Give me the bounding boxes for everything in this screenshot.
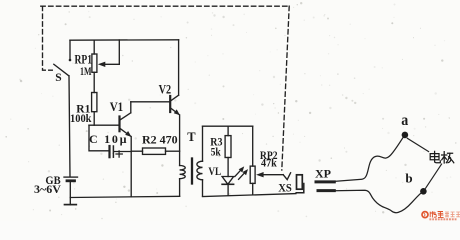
- wire: transformer primary bottom to ground rail: [179, 179, 181, 197]
- svg-text:XP: XP: [315, 167, 331, 181]
- wire: RP2 top stub: [252, 126, 254, 166]
- wire: RP2 bottom to secondary rail: [252, 183, 254, 194]
- svg-text:V1: V1: [110, 100, 124, 114]
- wire: R2 to V2 emitter: [166, 150, 180, 152]
- potentiometer RP1 top stub wire: [93, 40, 95, 54]
- wire: capacitor to V1 emitter node: [114, 151, 131, 153]
- watermark light glyph blobs: [445, 212, 460, 217]
- transformer T primary winding: [180, 166, 186, 179]
- plug XP bottom prong: [318, 189, 334, 192]
- character 电: [430, 151, 440, 162]
- transistor V1 base bar: [118, 117, 120, 132]
- capacitor C plus sign: [116, 151, 122, 157]
- socket XS body: [297, 175, 303, 189]
- mechanical link dashed line (right run down to RP2): [282, 6, 289, 170]
- svg-text:S: S: [55, 72, 61, 84]
- resistor R3 body: [225, 136, 231, 158]
- watermark bold glyph blobs: [430, 211, 444, 217]
- svg-text:XS: XS: [278, 180, 292, 194]
- resistor R1 body: [92, 93, 97, 112]
- wire: RP1 to R1: [93, 72, 95, 92]
- svg-text:T: T: [187, 130, 196, 144]
- LED VL cathode bar: [222, 183, 234, 185]
- wire: RP1 wiper return to top rail: [118, 40, 120, 64]
- switch S lever: [54, 64, 69, 76]
- wire: primary-side ground rail: [70, 196, 179, 197]
- wire: V1 emitter down to ground rail: [130, 137, 132, 197]
- wire: stub from top rail to switch fixed contact: [69, 40, 71, 59]
- mechanical link dashed line (left run down to S): [43, 6, 53, 70]
- label 电极 (drawn as vector strokes): [430, 151, 454, 163]
- RP2 wiper arrow: [260, 174, 283, 176]
- svg-text:47k: 47k: [261, 155, 277, 169]
- LED VL triangle: [222, 177, 234, 185]
- wire: battery negative down: [69, 182, 71, 205]
- wire: LED to secondary rail: [227, 184, 229, 195]
- RP1 wiper arrow: [102, 63, 120, 65]
- wire: secondary top up to load box top: [202, 126, 204, 161]
- battery GB plates: [64, 176, 78, 178]
- watermark logo circle: [422, 212, 428, 218]
- transformer T core: [191, 159, 193, 184]
- wire: top supply rail: [70, 39, 179, 41]
- wire: electrode lead b (curvy): [334, 190, 421, 212]
- character 极: [442, 152, 447, 163]
- svg-text:VL: VL: [208, 164, 221, 178]
- svg-text:b: b: [405, 171, 412, 186]
- transistor V1 collector: [120, 113, 131, 120]
- pointer line from electrode a to label: [407, 138, 428, 151]
- transistor V2 emitter with arrow: [171, 108, 179, 114]
- pointer line from electrode b to label: [426, 164, 442, 188]
- switch S fixed contact dot: [69, 59, 72, 62]
- wire: R3 top stub: [227, 126, 229, 135]
- wire: electrode lead a (curvy): [334, 137, 403, 182]
- potentiometer RP1 body: [92, 54, 97, 72]
- wire: V2 collector up to top rail: [178, 40, 180, 95]
- wire: V2 emitter down to transformer primary: [179, 115, 181, 166]
- battery lower plate bar: [65, 204, 77, 206]
- electrode terminal a dot: [402, 132, 409, 139]
- wire: switch to battery positive: [69, 76, 70, 177]
- transistor V1 emitter with arrow: [120, 129, 130, 137]
- mechanical link dashed line (top run): [41, 5, 289, 7]
- svg-text:V2: V2: [159, 83, 172, 97]
- svg-text:a: a: [401, 112, 408, 129]
- wire: secondary-side ground rail: [203, 194, 296, 197]
- wire: V1 collector to V2 base: [131, 101, 170, 103]
- capacitor C plates: [108, 146, 110, 157]
- svg-text:1M: 1M: [80, 64, 92, 78]
- LED VL light arrow 1: [235, 169, 242, 176]
- transformer T secondary winding: [197, 161, 203, 180]
- resistor R2 left wire: [131, 150, 142, 152]
- wire: load circuit top edge: [203, 125, 253, 127]
- socket XS sleeve bracket: [296, 184, 304, 193]
- electrode terminal b dot: [420, 188, 427, 195]
- watermark tiny sub-row: [429, 218, 456, 220]
- svg-text:5k: 5k: [211, 145, 221, 159]
- wire: capacitor branch down from base node: [89, 125, 109, 151]
- svg-text:C 10µ: C 10µ: [89, 132, 127, 146]
- resistor R2 body: [143, 148, 166, 154]
- transistor V2 base bar: [169, 96, 171, 112]
- wire: secondary bottom down to secondary rail: [202, 180, 204, 196]
- LED VL light arrow 2: [239, 172, 246, 179]
- XS tip contact tick: [283, 173, 290, 180]
- wire: R1 to V1 base node: [93, 112, 95, 126]
- plug XP top prong: [316, 180, 334, 183]
- svg-text:100k: 100k: [70, 111, 92, 125]
- wire: V1 base wire: [89, 124, 119, 126]
- wire: V1 collector up: [130, 102, 132, 113]
- transistor V2 collector: [171, 95, 179, 101]
- svg-text:R2 470: R2 470: [142, 132, 178, 146]
- svg-text:3~6V: 3~6V: [34, 182, 61, 196]
- potentiometer RP2 body: [250, 166, 255, 183]
- wire: R3 to LED: [227, 158, 229, 177]
